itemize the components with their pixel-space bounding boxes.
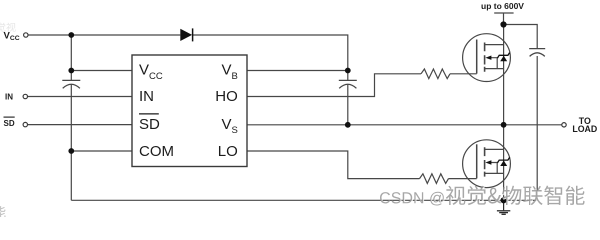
wire SD input bbox=[28, 124, 132, 126]
watermark fragment bottom-left corner bbox=[0, 206, 6, 218]
svg-text:up to 600V: up to 600V bbox=[481, 1, 524, 11]
wire bootstrap cap lower lead to VS bbox=[347, 85, 349, 125]
svg-text:LO: LO bbox=[218, 143, 238, 160]
wire Vcc rail bbox=[28, 34, 180, 36]
svg-text:IN: IN bbox=[139, 88, 154, 105]
svg-text:HO: HO bbox=[215, 88, 238, 105]
terminal Vcc bbox=[24, 33, 28, 37]
transistor Q1 high-side MOSFET bbox=[463, 34, 511, 82]
diode D1 bootstrap bbox=[180, 28, 192, 41]
transistor Q2 low-side MOSFET bbox=[463, 140, 511, 188]
svg-text:COM: COM bbox=[139, 143, 174, 160]
wire COM stub bbox=[71, 150, 132, 152]
svg-text:LOAD: LOAD bbox=[572, 124, 597, 134]
node junction bootstrap/VS bbox=[345, 122, 351, 128]
wire VB stub bbox=[247, 70, 348, 72]
watermark fragment top-left corner bbox=[0, 23, 16, 32]
watermark CSDN bbox=[381, 187, 586, 207]
wire VCC pin stub bbox=[71, 70, 132, 72]
wire bottom rail bbox=[71, 199, 537, 201]
wire 600V branch to bus capacitor bbox=[504, 25, 538, 49]
wire VS output line bbox=[247, 124, 562, 126]
wire LO to gate resistor R2 bbox=[247, 151, 420, 179]
ground bbox=[497, 200, 510, 214]
svg-text:SD: SD bbox=[139, 116, 160, 133]
wire IN input bbox=[28, 96, 132, 98]
node junction COM bbox=[68, 148, 74, 154]
wire bypass cap lower lead down to COM and bottom rail bbox=[70, 85, 72, 201]
resistor R2 low-side gate bbox=[420, 174, 449, 184]
node junction bypass/VCC pin bbox=[68, 68, 74, 74]
capacitor C1 Vcc bypass bbox=[62, 80, 80, 88]
svg-text:IN: IN bbox=[5, 92, 13, 101]
resistor R1 high-side gate bbox=[421, 69, 450, 79]
wire high-side drain/source column bbox=[503, 25, 505, 201]
svg-text:SD: SD bbox=[4, 119, 15, 128]
node junction 600V bus bbox=[500, 21, 506, 27]
terminal TO LOAD bbox=[562, 123, 566, 127]
capacitor C3 bus bbox=[529, 49, 545, 57]
node junction VS/load bbox=[501, 122, 507, 128]
terminal IN bbox=[23, 94, 27, 98]
wire HO to gate resistor R1 bbox=[247, 74, 421, 97]
node junction VB/bootstrap bbox=[345, 68, 351, 74]
capacitor C2 bootstrap bbox=[339, 80, 357, 88]
node junction Vcc/bypass bbox=[68, 32, 74, 38]
IC U1 gate driver box bbox=[132, 55, 247, 167]
wire 600V bus bar and drop bbox=[494, 13, 513, 25]
wire bus capacitor lower lead to bottom rail bbox=[536, 56, 538, 200]
wire R2 to Q2 gate bbox=[449, 178, 477, 180]
terminal SD bbox=[23, 122, 27, 126]
node junction source/ground bbox=[501, 197, 507, 203]
wire R1 to Q1 gate bbox=[450, 73, 477, 75]
wire Vcc bypass branch vertical bbox=[70, 35, 72, 80]
wire Vcc rail diode-to-bootstrap corner bbox=[192, 35, 347, 80]
